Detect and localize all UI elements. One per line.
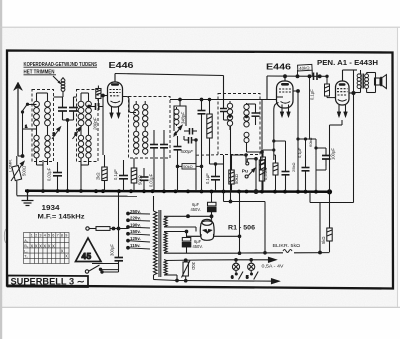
- bandfilter coil L1a: [34, 98, 40, 160]
- svg-text:500pF: 500pF: [181, 149, 194, 154]
- svg-text:0,1μF: 0,1μF: [205, 173, 210, 184]
- svg-text:1: 1: [31, 234, 33, 238]
- transformer core: [159, 210, 161, 277]
- coupling capacitor C2 in bandfilter: [69, 97, 78, 120]
- svg-text:0,5A - 4V: 0,5A - 4V: [262, 263, 284, 268]
- svg-text:300μF: 300μF: [110, 244, 115, 256]
- power transformer taps: [127, 212, 150, 249]
- coupling capacitor C1 in bandfilter: [58, 97, 67, 120]
- heater arrow line 2: [272, 279, 280, 284]
- rectifier tube 506: [187, 216, 215, 240]
- svg-text:X: X: [65, 254, 68, 259]
- svg-text:190v.: 190v.: [130, 222, 141, 227]
- coupling capacitor to PEN: [313, 73, 327, 81]
- wire tube2 cathode left: [274, 97, 283, 160]
- main bus: [25, 191, 330, 192]
- wire lower bus to pot: [17, 195, 137, 197]
- svg-text:1934: 1934: [42, 205, 60, 212]
- lamp switch 1: [231, 270, 243, 279]
- svg-text:4: 4: [44, 234, 46, 238]
- transformer secondary HT winding: [164, 217, 167, 227]
- note KOPERDRAAD-GETWIJND TIJDENS: [24, 62, 98, 76]
- svg-text:8: 8: [61, 234, 63, 238]
- antenna: [14, 82, 23, 156]
- capacitor 200pF series: [88, 103, 103, 110]
- svg-text:450V.: 450V.: [193, 244, 203, 249]
- svg-text:X: X: [35, 243, 38, 248]
- resistor 30ohm: [182, 261, 191, 281]
- IF2 primary coil: [227, 101, 232, 203]
- svg-text:PEN. A1 - E443H: PEN. A1 - E443H: [317, 60, 378, 67]
- svg-text:M.F.= 145kHz: M.F.= 145kHz: [38, 214, 85, 221]
- lamp L2: [248, 260, 255, 271]
- wavy resistor mark: [283, 250, 292, 253]
- resistor 5k right: [327, 228, 332, 252]
- PU pickup: [242, 158, 258, 194]
- resistor 50k vertical mid: [131, 158, 137, 191]
- svg-text:4: 4: [174, 131, 177, 136]
- svg-text:Pu: Pu: [242, 169, 248, 175]
- small comp row: resistor b: [273, 155, 278, 191]
- svg-text:2kΩ: 2kΩ: [96, 172, 101, 180]
- svg-text:0,01μF: 0,01μF: [149, 173, 154, 187]
- svg-text:X: X: [43, 243, 46, 248]
- transformer secondary mid winding: [164, 232, 167, 253]
- svg-text:220v.: 220v.: [130, 216, 141, 221]
- svg-text:250v.: 250v.: [130, 209, 141, 214]
- secondary wires: [164, 216, 240, 280]
- svg-text:0,1μF: 0,1μF: [297, 147, 302, 158]
- label 6uF 450V lower: [193, 239, 203, 249]
- svg-text:R1 - 506: R1 - 506: [228, 225, 255, 232]
- wire tube2 anode right: [293, 90, 299, 191]
- wire osc top bus: [170, 98, 276, 106]
- label 6uF 450V top: [191, 202, 201, 212]
- bandfilter coil L1b: [45, 96, 51, 160]
- wire tube1 grid cap to top: [115, 74, 224, 108]
- capacitor 100uF: [322, 148, 331, 166]
- wire tube2 grid cap up: [267, 75, 321, 139]
- svg-text:6: 6: [52, 234, 54, 238]
- lamp switch 2: [246, 270, 258, 279]
- IF2 tuning cap right: [247, 104, 260, 125]
- svg-text:3: 3: [75, 132, 78, 137]
- table X marks: [31, 243, 69, 258]
- small comp row: capacitor d: [302, 155, 310, 191]
- speaker: [375, 75, 387, 89]
- small comp row: resistor a: [261, 150, 266, 191]
- svg-text:E446: E446: [109, 60, 134, 70]
- svg-text:3: 3: [39, 234, 41, 238]
- svg-text:150v.: 150v.: [130, 229, 141, 234]
- resistor 0,5M: [259, 152, 264, 191]
- padder capacitor a: [184, 128, 197, 135]
- dashed shield segment left of IF2: [196, 154, 218, 156]
- svg-text:2: 2: [35, 234, 37, 238]
- coil switch table: [24, 233, 70, 264]
- mains switch: [85, 264, 118, 274]
- svg-text:X: X: [39, 243, 42, 248]
- svg-text:T₀: T₀: [24, 255, 28, 259]
- padder capacitor b: [184, 136, 197, 191]
- capacitor 500pF: [174, 136, 182, 191]
- wire bus right end down: [329, 192, 331, 228]
- capacitor at tube2 grid left: [198, 100, 206, 192]
- bandfilter coil L2b: [86, 96, 92, 160]
- oscillator tuning arrow 4: [174, 126, 183, 137]
- svg-text:45: 45: [82, 251, 92, 261]
- bus junction dots: [26, 189, 333, 194]
- svg-text:E446: E446: [266, 62, 291, 72]
- svg-text:30Ω: 30Ω: [191, 262, 196, 270]
- svg-text:X: X: [61, 249, 64, 254]
- potentiometer 500ohm: [11, 162, 24, 196]
- capacitor 0,01uF: [140, 168, 149, 191]
- resistor 30k oscillator: [207, 100, 212, 165]
- tuning arrow 3: [73, 127, 82, 139]
- IF transformer 1 dashed shield: [129, 97, 171, 159]
- label SUPERBELL 3 box: [8, 276, 89, 288]
- IF1 primary coil: [134, 101, 139, 155]
- wire heater line 1 left: [200, 259, 230, 261]
- resistor 40k top: [298, 64, 313, 76]
- resistor 0,5M grid PEN: [325, 75, 336, 97]
- capacitor 0,02uF: [53, 162, 62, 191]
- output transformer: [354, 70, 376, 93]
- svg-text:BLIKR. 5kΩ: BLIKR. 5kΩ: [273, 243, 301, 248]
- wire blikr line: [240, 203, 330, 254]
- IF2 secondary lower coil: [244, 132, 249, 147]
- wire cap stubs to shield boxes: [54, 96, 77, 98]
- svg-text:50kΩ: 50kΩ: [234, 174, 239, 184]
- wire IF2 to PU node: [232, 100, 264, 163]
- ground: [22, 192, 34, 206]
- svg-text:500Ω: 500Ω: [22, 166, 27, 176]
- wire cathode tube2 taps: [263, 138, 326, 191]
- svg-text:2: 2: [53, 132, 56, 137]
- IF transformer 2 dashed shield: [218, 94, 260, 155]
- IF2 trimmer cap left: [220, 107, 229, 120]
- IF2 secondary coil: [244, 103, 249, 127]
- wire mains bottom: [92, 263, 119, 265]
- svg-text:200pF: 200pF: [93, 117, 98, 131]
- svg-text:5: 5: [48, 234, 50, 238]
- svg-text:450V.: 450V.: [191, 207, 201, 212]
- wire tube1 anode diagonal to IF box: [123, 97, 137, 113]
- resistor 2k vertical: [102, 155, 107, 191]
- bottom heater line: [154, 279, 279, 282]
- svg-text:40kΩ: 40kΩ: [299, 65, 310, 71]
- svg-text:340pF: 340pF: [181, 112, 186, 124]
- capacitor 0,1uF mid: [210, 155, 224, 191]
- small comp row: capacitor c: [282, 160, 290, 191]
- svg-text:X: X: [52, 243, 55, 248]
- svg-text:SUPERBELL 3 ∼: SUPERBELL 3 ∼: [11, 277, 85, 287]
- tube V1 E446: [108, 82, 123, 119]
- tube V2 E446: [277, 81, 294, 118]
- IF1 tuning cap b: [160, 130, 168, 191]
- pointer arrow from note to trimmer coil: [53, 76, 60, 83]
- svg-text:125v.: 125v.: [130, 236, 141, 241]
- table digits: [24, 234, 67, 259]
- wire bus to detector HT y201.5: [224, 192, 267, 254]
- svg-text:25kΩ: 25kΩ: [291, 163, 296, 172]
- wire rect cathode right: [214, 192, 241, 255]
- capacitor 0,1uF left: [119, 160, 128, 191]
- IF1 tuning cap a: [150, 130, 158, 191]
- svg-text:X: X: [48, 243, 51, 248]
- svg-text:9: 9: [65, 234, 67, 238]
- svg-text:0,1μF: 0,1μF: [113, 169, 118, 180]
- transformer secondary heater winding: [164, 260, 167, 276]
- svg-text:7: 7: [57, 234, 59, 238]
- capacitor 6uF 450V top: [187, 192, 216, 218]
- svg-text:115v.: 115v.: [130, 243, 140, 248]
- bandfilter coil L2a: [78, 96, 84, 160]
- resistor 50k horizontal box: [176, 164, 203, 169]
- transformer primary winding: [154, 196, 158, 280]
- capacitor 300uF: [115, 258, 124, 264]
- lamp L1: [232, 260, 239, 271]
- wire PEN anode top: [343, 70, 358, 95]
- resistor 3k at grid: [96, 86, 101, 105]
- trimmer coil above bandfilter: [61, 77, 65, 91]
- svg-text:A₀: A₀: [24, 239, 29, 243]
- heater arrow line 1: [230, 257, 276, 262]
- svg-text:0,1μF: 0,1μF: [310, 89, 315, 100]
- IF1 secondary coil: [143, 101, 148, 155]
- wire fuse drop: [118, 192, 120, 258]
- wire joining C1 C2 down: [63, 119, 74, 191]
- border frame: [7, 51, 393, 289]
- mains fuse: [86, 227, 128, 231]
- svg-text:B₀: B₀: [24, 244, 29, 248]
- top entry wires into bandfilter: [37, 91, 89, 98]
- svg-text:100μF: 100μF: [331, 148, 336, 160]
- bandfilter shield dashed box: [32, 90, 98, 162]
- aerial switch: [17, 103, 37, 165]
- triangle 45: [76, 238, 102, 262]
- svg-text:L₀: L₀: [24, 249, 28, 253]
- capacitor 6uF 450V lower: [182, 230, 191, 253]
- tuning arrow 2: [52, 127, 61, 139]
- svg-text:50kΩ: 50kΩ: [183, 164, 192, 169]
- oscillator coil box: [174, 106, 186, 131]
- svg-text:L.OMR.: L.OMR.: [9, 159, 13, 172]
- svg-text:X: X: [31, 243, 34, 248]
- tube V3 PEN A1: [336, 81, 350, 118]
- svg-text:5kΩ: 5kΩ: [321, 236, 326, 244]
- resistor 50k mid2: [229, 155, 234, 191]
- tap labels: [130, 209, 141, 248]
- svg-text:0,02μF: 0,02μF: [47, 167, 52, 181]
- wire bandfilter bottoms to bus: [37, 158, 89, 191]
- wire speaker return / right side: [310, 70, 354, 203]
- node grid tube1 left: [102, 94, 108, 155]
- pencil mark left margin: [4, 229, 5, 243]
